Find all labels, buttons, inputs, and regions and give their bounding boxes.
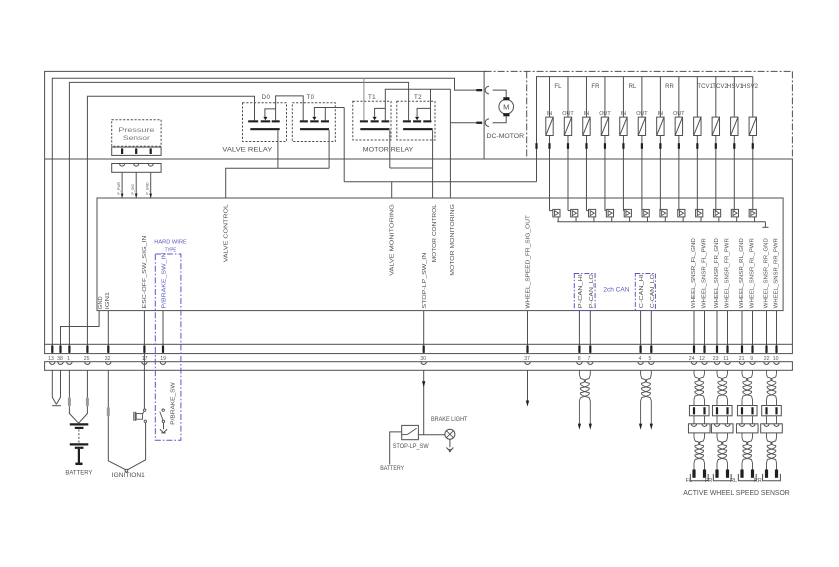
svg-text:38: 38 [57,356,63,362]
svg-text:P_PWR: P_PWR [117,181,121,194]
connector pin [640,346,642,353]
svg-text:MOTOR CONTROL: MOTOR CONTROL [432,203,438,262]
hydraulic unit dash-dot boundary [485,70,793,72]
svg-text:TYPE: TYPE [165,248,177,254]
harness socket [160,362,165,365]
svg-text:MOTOR MONITORING: MOTOR MONITORING [450,204,456,276]
wire pin 32 fused to ignition switch [107,370,109,407]
connector pin [86,346,88,353]
relay T2 terminal pads [403,120,411,122]
valve driver 8 [678,209,685,217]
ECU box [97,198,783,311]
wire ignition to ESC-OFF switch [127,441,145,470]
svg-text:WHEEL_SNSR_RR_GND: WHEEL_SNSR_RR_GND [764,238,770,308]
svg-text:FL: FL [554,84,562,90]
svg-text:VALVE RELAY: VALVE RELAY [222,146,273,153]
wire T0 drain stub [324,108,326,121]
valve supply connector pin [535,143,537,149]
harness socket [764,362,769,365]
wire wheel sensor to connector [741,311,743,354]
connector pin [68,346,70,353]
motor brush upper [503,97,509,100]
valve driver 9 [696,209,703,217]
wire D0 drain to T0 left pad [276,96,304,121]
wheel sensor RL connector plug [737,406,757,416]
wire GND to pin 38 [61,311,100,354]
svg-text:23: 23 [713,356,719,362]
svg-text:VALVE MONITORING: VALVE MONITORING [390,204,396,276]
wire wheel sensor to connector [766,311,768,354]
solenoid valve col3 IN FR [585,77,587,118]
harness socket [421,362,426,365]
svg-text:TCV1: TCV1 [697,84,713,90]
solenoid valve col7 IN RR [659,77,661,118]
svg-text:P-CAN_HI: P-CAN_HI [578,274,584,308]
valve driver 5 [622,210,625,212]
harness socket [702,362,707,365]
wire T0 to valve supply (via lower run) [343,108,345,182]
svg-text:HSV2: HSV2 [742,84,759,90]
svg-text:RR: RR [665,84,674,90]
pressure sensor socket strip [112,164,161,173]
motor connector pin upper [476,89,482,91]
solenoid valve col12 HSV2 [752,77,754,118]
relay T0 gate arrow [312,117,316,120]
harness socket [50,362,55,365]
svg-text:DC-MOTOR: DC-MOTOR [487,133,525,140]
ESC-OFF push button actuator [136,414,142,420]
svg-text:WHEEL_SNSR_RL_PWR: WHEEL_SNSR_RL_PWR [750,238,756,308]
wheel sensor RR cable twisted pair [766,433,768,438]
CAN arrowheads [639,424,642,430]
svg-text:RL: RL [730,478,737,484]
pressure sensor wires to ECU [121,172,123,198]
wire D0 bar output [277,130,279,168]
svg-text:22: 22 [764,356,770,362]
wheel speed sensor RL body [740,470,743,478]
relay T2 channel bar [403,128,433,130]
wire T1 bar output [389,130,391,168]
relay T1 terminal pads [360,120,368,122]
svg-text:BATTERY: BATTERY [65,469,92,476]
wheel speed sensor FL body [692,470,695,478]
harness socket [106,362,111,365]
ECU connector header [45,344,793,353]
svg-text:OUT: OUT [599,111,611,117]
svg-text:IGNITION1: IGNITION1 [112,472,146,479]
CAN port P dash-dot box [574,274,595,311]
CAN twisted pair [640,370,642,374]
wire D0 gate bend [265,109,276,117]
wheel sensor FL connector socket [688,424,710,433]
svg-text:25: 25 [84,356,90,362]
svg-text:19: 19 [160,356,166,362]
svg-text:IGN1: IGN1 [105,292,111,309]
wire valve supply run to T0 [344,181,536,183]
wire STOP-LP to pin 30 [423,311,425,354]
wire pin 1 fused to battery [68,370,70,398]
svg-text:P_SIG: P_SIG [131,184,135,195]
wheel sensor RL connector socket [736,424,758,433]
valve driver 6 [641,210,643,212]
wire motor minus lead [450,122,476,124]
wire parking brake to ground [163,423,165,430]
connector pin [726,346,728,353]
harness socket [774,362,779,365]
connector pin [741,346,743,353]
relay transistor T2 box [397,101,435,140]
svg-text:37: 37 [524,356,530,362]
svg-text:FL: FL [686,478,693,484]
wire IGN1 to pin 32 [107,311,109,354]
svg-text:VALVE CONTROL: VALVE CONTROL [224,203,230,262]
brake light lamp E1 [445,429,455,439]
valve driver 10 [713,209,720,217]
svg-text:STOP-LP_SW_IN: STOP-LP_SW_IN [422,253,428,309]
valve driver 12 [749,209,756,217]
svg-text:T0: T0 [306,94,314,101]
wire CAN to connector [578,311,580,354]
connector pin [51,346,53,353]
wire pin 30 to stop lamp switch [423,370,425,435]
motor connector socket upper [485,86,489,94]
wheel sensor RR harness twisted pair [766,370,768,374]
wheel sensor FR connector plug [712,406,732,416]
svg-text:WHEEL_SNSR_FR_PWR: WHEEL_SNSR_FR_PWR [725,238,731,308]
svg-text:BRAKE LIGHT: BRAKE LIGHT [431,417,468,423]
CAN twisted pair [578,370,580,374]
wire pins 13,38 to chassis ground [52,370,56,404]
wheel sensor FR connector socket [711,424,733,433]
harness socket [638,362,643,365]
CAN port C dash-dot box [635,274,655,311]
solenoid valve col9 TCV1 [696,77,698,118]
svg-text:STOP-LP_SW: STOP-LP_SW [393,444,429,450]
parking brake switch SW2 [162,409,164,411]
wire ESC-OFF to pin 17 [143,311,145,354]
wire wheel sensor to connector [752,311,754,354]
wire valve monitoring to ECU [391,182,393,198]
connector pin [716,346,718,353]
svg-text:FR: FR [705,478,712,484]
relay transistor T0 box [292,103,335,142]
relay T0 terminal pads [300,120,308,122]
wheel sensor RR connector socket [761,424,783,433]
relay T1 gate arrow [373,117,377,120]
svg-text:ACTIVE WHEEL SPEED SENSOR: ACTIVE WHEEL SPEED SENSOR [683,490,790,497]
svg-text:9: 9 [750,356,753,362]
connector pin [143,346,145,353]
wheel sensor FR harness twisted pair [716,370,718,374]
svg-text:RR: RR [754,478,762,484]
wire wheel sensor to connector [727,311,729,354]
svg-text:WHEEL_SNSR_FL_GND: WHEEL_SNSR_FL_GND [691,238,697,308]
harness socket [67,362,72,365]
harness socket [58,362,63,365]
svg-text:OUT: OUT [673,111,685,117]
svg-text:GND: GND [98,296,104,309]
pressure sensor pin header [112,147,161,155]
relay T1 channel bar [360,128,389,130]
stop lamp switch box SW3 [402,425,419,439]
svg-text:T2: T2 [414,94,422,101]
driver bus ground [764,222,766,228]
svg-text:10: 10 [773,356,779,362]
wire valve control to ECU [226,168,329,198]
wire T0 gate bend to valve feed [314,108,344,118]
solenoid valve col2 OUT [567,77,569,118]
wire L2 bus to motor + / T1 feed [52,78,477,353]
valve driver 4 [605,210,606,212]
svg-text:IN: IN [658,111,663,117]
wire T0 bar output [328,130,330,168]
wire CAN to connector [640,311,642,354]
svg-text:24: 24 [689,356,695,362]
motor M1 body [499,99,514,114]
CAN arrowheads [578,424,581,430]
connector pin [59,346,61,353]
harness socket [739,362,744,365]
svg-text:WHEEL_SNSR_FR_GND: WHEEL_SNSR_FR_GND [714,238,720,308]
svg-text:BATTERY: BATTERY [380,466,404,472]
wire T1 feed from L2 [363,78,365,120]
svg-text:WHEEL_SPEED_FR_SIG_OUT: WHEEL_SPEED_FR_SIG_OUT [526,214,532,309]
solenoid valve col8 OUT [678,77,680,118]
pressure sensor box [112,120,161,147]
wire L3 bus to T2 left pad [69,82,408,353]
svg-text:P/BRAKE_SW_IN: P/BRAKE_SW_IN [162,253,168,309]
svg-text:5: 5 [648,356,651,362]
valve driver 3 [586,210,588,212]
connector pin [693,346,695,353]
relay D0 channel bar [250,128,279,130]
svg-text:P-CAN_LO: P-CAN_LO [589,274,595,308]
wire battery feed to stop lamp switch [390,432,402,465]
svg-text:OUT: OUT [636,111,648,117]
connector pin [423,346,425,353]
wire CAN to connector [650,311,652,354]
connector pin [589,346,591,353]
svg-text:21: 21 [739,356,745,362]
svg-text:C-CAN_LO: C-CAN_LO [650,274,656,308]
svg-text:7: 7 [587,356,590,362]
relay D0 gate arrow [263,117,267,120]
wheel speed sensor FR body [715,470,718,478]
wheel sensor RR connector plug [762,406,782,416]
wire T2 gate bend [417,108,430,117]
svg-text:T1: T1 [368,94,376,101]
svg-text:WHEEL_SNSR_RR_PWR: WHEEL_SNSR_RR_PWR [774,238,780,308]
relay transistor D0 box [243,103,287,142]
connector pin [775,346,777,353]
wire wheel sensor to connector [716,311,718,354]
svg-text:WHEEL_SNSR_FL_PWR: WHEEL_SNSR_FL_PWR [702,238,708,308]
svg-text:M: M [503,103,509,112]
wheel sensor RL cable twisted pair [741,433,743,438]
wheel sensor FR cable twisted pair [716,433,718,438]
svg-text:13: 13 [48,356,54,362]
wire pin 25 fused to battery [86,370,88,398]
wire motor leads [493,90,507,97]
svg-text:11: 11 [723,356,728,362]
svg-text:2ch CAN: 2ch CAN [603,287,629,294]
solenoid valve col4 OUT [604,77,606,118]
wire CAN to connector [589,311,591,354]
wheel sensor RL harness twisted pair [741,370,743,374]
connector pin [107,346,109,353]
parking brake ground [160,429,167,432]
svg-text:MOTOR RELAY: MOTOR RELAY [363,146,414,153]
svg-text:8: 8 [578,356,581,362]
wire motor monitoring to ECU [449,89,451,198]
chassis ground tick [52,405,61,407]
wire pin 37 signal out [527,370,529,400]
svg-text:P_GND: P_GND [146,182,150,195]
svg-text:4: 4 [638,356,641,362]
svg-text:HARD WIRE: HARD WIRE [154,240,187,246]
harness socket [750,362,755,365]
relay D0 terminal pads [248,120,258,122]
svg-text:IN: IN [547,111,552,117]
battery B1 [70,423,89,425]
svg-text:P/BRAKE_SW: P/BRAKE_SW [171,381,177,425]
wire valve supply rail [537,77,753,182]
valve driver 2 [568,210,571,212]
svg-text:FR: FR [591,84,600,90]
harness socket [725,362,730,365]
valve driver 7 [660,209,667,217]
ignition switch node [125,469,128,472]
valve driver 1 [550,210,553,212]
harness socket [85,362,90,365]
wire motor control to ECU [390,167,433,169]
solenoid valve col1 IN FL [549,77,551,118]
wire wheel sensor to connector [776,311,778,354]
svg-text:32: 32 [105,356,111,362]
svg-text:IN: IN [584,111,589,117]
svg-text:IN: IN [621,111,626,117]
svg-text:OUT: OUT [562,111,574,117]
svg-text:30: 30 [420,356,426,362]
harness socket [691,362,696,365]
svg-text:ESC-OFF_SW_SIG_IN: ESC-OFF_SW_SIG_IN [142,235,148,308]
wire P/BRAKE to pin 19 [162,311,164,354]
relay T2 gate arrow [415,117,419,120]
solenoid valve col6 OUT [641,77,643,118]
harness socket [142,362,147,365]
wire driver common return bus [557,221,765,223]
svg-text:1: 1 [67,356,70,362]
connector pin [703,346,705,353]
valve driver 11 [731,209,738,217]
connector pin [162,346,164,353]
wire wheel sensor to connector [704,311,706,354]
solenoid valve col10 TCV2 [715,77,717,118]
wire W4 bus to D0 left pad [87,96,254,353]
harness socket [525,362,530,365]
wire WHEEL_SPEED_FR out pin 37 [527,311,529,354]
svg-text:WHEEL_SNSR_RL_GND: WHEEL_SNSR_RL_GND [739,238,745,308]
harness socket [577,362,582,365]
motor connector pin lower [476,122,482,124]
harness socket [588,362,593,365]
connector pin [751,346,753,353]
wire hydraulic unit bottom rail [45,159,793,344]
wire switch to brake light [418,434,445,436]
harness connector [45,362,793,371]
relay compartment right wall [483,71,485,159]
relay transistor T1 box [353,101,391,140]
svg-text:Sensor: Sensor [123,135,151,142]
battery ground stub [78,449,80,463]
harness socket [714,362,719,365]
connector pin [526,346,528,353]
wheel speed sensor RR body [765,470,768,478]
harness socket [649,362,654,365]
wire T2 drain junction [430,89,432,120]
svg-text:Pressure: Pressure [118,127,154,134]
wheel sensor FL harness twisted pair [693,370,695,374]
connector pin [650,346,652,353]
solenoid valve col5 IN RL [622,77,624,118]
svg-text:D0: D0 [262,94,271,101]
motor connector socket lower [485,119,489,127]
svg-text:12: 12 [699,356,705,362]
wire L1 bus (pin13 side outer) [45,71,486,344]
motor brush lower [503,113,509,116]
parking brake switch dash-dot box [155,254,181,440]
brake light ground [449,439,451,447]
solenoid valve col11 HSV1 [733,77,735,118]
connector pin [765,346,767,353]
svg-text:C-CAN_HI: C-CAN_HI [639,274,645,308]
wire T1 drain to motor minus net [385,89,450,120]
svg-text:RL: RL [629,84,637,90]
connector pin [578,346,580,353]
wheel sensor FL cable twisted pair [693,433,695,438]
wheel sensor FL connector plug [689,406,709,416]
wire T1 gate bend [375,108,386,117]
wire wheel sensor to connector [693,311,695,354]
relay T0 channel bar [300,128,329,130]
ESC-OFF switch SW1 [143,353,145,409]
